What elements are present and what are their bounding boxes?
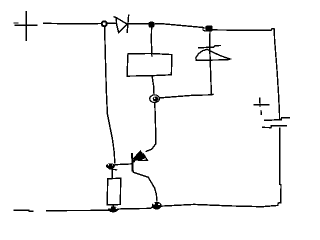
wire <box>213 29 280 120</box>
node B <box>149 22 155 28</box>
wire <box>148 177 157 201</box>
diode D1 <box>114 15 128 32</box>
wire <box>105 27 115 163</box>
transistor Q1 <box>132 151 148 177</box>
wire <box>14 203 278 211</box>
relay coil <box>127 54 172 77</box>
wire <box>107 22 116 24</box>
diode D2 <box>196 46 230 61</box>
wire <box>278 128 281 203</box>
wire <box>160 94 213 98</box>
wire <box>210 31 212 94</box>
node C <box>203 26 213 32</box>
wire <box>154 24 203 28</box>
node D <box>106 163 117 170</box>
battery B1 <box>263 118 289 128</box>
node A <box>102 21 107 26</box>
node F <box>152 202 162 210</box>
resistor R1 <box>107 178 121 205</box>
wire <box>115 163 132 166</box>
wire <box>111 169 113 178</box>
wire <box>146 103 156 151</box>
wire <box>150 28 153 57</box>
wire <box>112 205 114 207</box>
battery plus polarity mark <box>254 98 269 114</box>
node G <box>108 206 118 212</box>
node E <box>150 95 160 103</box>
wire <box>128 23 149 25</box>
positive supply terminal plus sign <box>15 12 37 41</box>
wire <box>152 76 154 94</box>
wire <box>14 22 102 25</box>
